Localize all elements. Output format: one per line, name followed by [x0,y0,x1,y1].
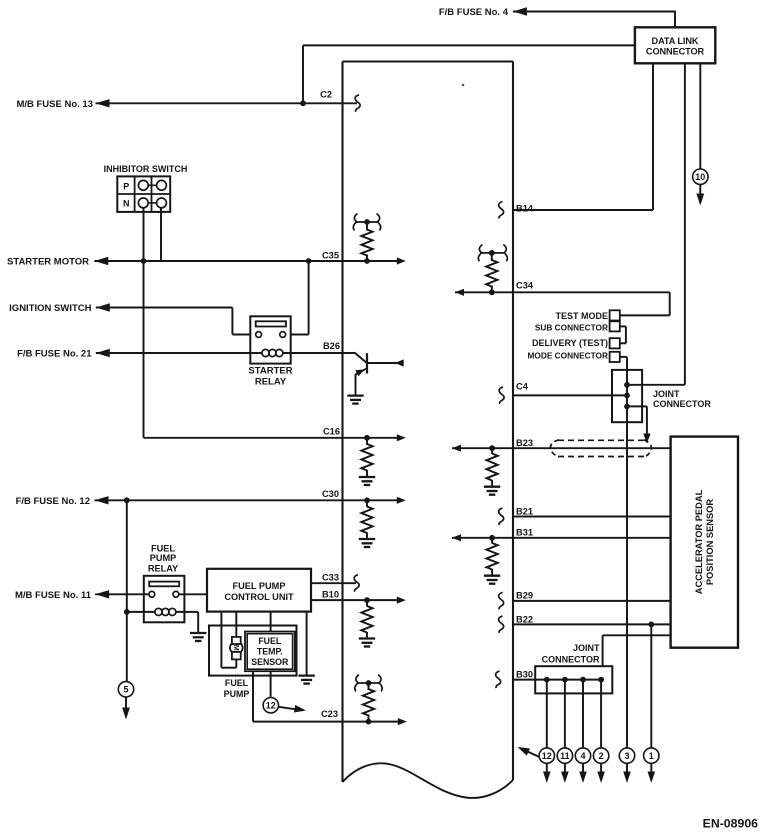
svg-text:M/B FUSE No. 13: M/B FUSE No. 13 [16,99,93,110]
node B23 resistor junction [489,445,495,451]
C35 resistor top-left squiggle [353,214,357,231]
node junction C2 branch [300,100,306,106]
svg-text:F/B FUSE No. 21: F/B FUSE No. 21 [17,349,92,360]
wire C23 resistor lead [368,683,370,690]
node C30 resistor junction [364,497,370,503]
wire below circle 12 [546,763,548,772]
arrow to IGNITION SWITCH [96,303,110,311]
svg-text:CONNECTOR: CONNECTOR [542,654,600,664]
node J2 pin 2 [562,677,568,683]
svg-text:PUMP: PUMP [224,689,250,699]
arrow C35 internal [397,257,406,264]
ground for R-C30 [359,538,375,540]
node circled 12 (sensor ref) [263,698,278,713]
svg-text:P: P [123,181,129,191]
scan artifact dot [462,84,465,87]
wire test pin2 to delivery pin1 [620,325,626,327]
wire inhibitor left column down to C16 [143,208,145,438]
node J2 pin 4 [598,677,604,683]
connector B30 squiggle [496,671,501,688]
starter relay terminal right [280,332,286,338]
node circled 3 [619,748,634,763]
inhibitor switch cell dividers [134,176,136,212]
svg-text:N: N [123,199,130,209]
inhibitor switch S1 box [117,176,170,212]
svg-text:2: 2 [599,751,604,761]
arrow down from circle 10 [696,194,704,206]
C35 resistor top-right squiggle [377,214,381,231]
resistor R-C34 zigzag [486,260,497,287]
svg-text:4: 4 [580,751,585,761]
svg-text:B10: B10 [322,590,339,600]
transistor Q1 bar [366,353,368,373]
connector C4 squiggle [499,387,504,404]
arrow down from circle 3 [623,772,631,784]
test mode sub connector pin 2 [610,321,620,331]
motor M1 brush bottom [232,652,241,660]
svg-text:STARTER MOTOR: STARTER MOTOR [7,257,89,268]
wire J2 pin2 down [564,680,566,748]
joint connector J1 box [612,370,642,422]
fuel pump relay terminal right [173,591,179,597]
arrow C34 internal [455,289,464,296]
svg-text:CONTROL UNIT: CONTROL UNIT [224,592,294,602]
wire below circle 1 [650,763,652,772]
wire J2 pin4 down [600,680,602,748]
node J1 pin top [624,382,630,388]
motor M1 body [230,642,243,655]
ECM band top edge (wire) [343,60,514,62]
svg-text:FUEL PUMP: FUEL PUMP [233,581,286,591]
wire coil to ground run [176,611,198,613]
reference arrow into ECM band [528,752,539,757]
wire relay branch riser [308,261,310,335]
svg-text:B29: B29 [516,591,533,601]
wire drop to DLC top [674,11,676,28]
svg-text:DATA LINK: DATA LINK [652,36,699,46]
node circled 12 [539,748,554,763]
svg-text:FUEL: FUEL [225,678,249,688]
shield dashed bottom [558,456,648,458]
svg-text:FUEL: FUEL [258,636,282,646]
wire ignition switch to relay [96,307,233,309]
node C23 resistor junction [366,719,372,725]
resistor R-B23 zigzag [487,454,498,481]
svg-text:ACCELERATOR PEDAL: ACCELERATOR PEDAL [694,489,704,594]
wire top feed to DATA LINK CONNECTOR [303,44,635,46]
arrow C30 internal [397,497,406,504]
connector B21 squiggle [499,508,504,525]
node J1 pin middle [624,393,630,399]
wire DLC pin1 drop to B14 [652,63,654,210]
arrow B10 internal [397,597,406,604]
delivery mode connector pin 2 [610,352,620,362]
svg-text:TEMP.: TEMP. [257,647,283,657]
wire M/B FUSE No.13 to connector C2 [96,102,358,104]
svg-text:CONNECTOR: CONNECTOR [653,399,711,409]
connector C2 squiggle [355,95,360,112]
node circled 10 [693,169,708,184]
wire relay coil lead left [250,352,262,354]
wire B10 resistor bottom lead [366,600,368,606]
wire fuse12 riser down [126,500,128,682]
svg-text:B22: B22 [516,614,533,624]
arrow to F/B FUSE No. 4 [513,7,527,15]
arrow C23 internal [398,718,407,725]
shield dashed top [558,439,645,441]
svg-text:MODE CONNECTOR: MODE CONNECTOR [527,351,608,361]
starter relay coil [262,349,269,356]
svg-text:M: M [232,645,241,651]
transistor Q1 collector arrowhead [395,359,404,366]
connector B14 squiggle [499,202,504,219]
resistor R-C35 zigzag [361,230,372,256]
svg-text:JOINT: JOINT [573,643,600,653]
delivery mode connector pin 1 [610,338,620,348]
wire starter motor to C35 [94,260,342,262]
wire C35 internal [343,260,402,262]
node circled 2 [593,748,608,763]
arrow to F/B FUSE No. 21 [96,349,110,357]
motor M1 brush top [232,637,241,644]
svg-text:FUEL: FUEL [151,544,175,554]
svg-text:C33: C33 [322,572,339,582]
arrow down from circle 11 [561,772,569,784]
ECM band left edge (wire) [341,62,343,783]
svg-text:DELIVERY (TEST): DELIVERY (TEST) [532,338,608,348]
wire joint connector bus [626,370,628,422]
wire C30 resistor bottom lead [366,500,368,507]
wire below circle 4 [582,763,584,772]
wire below circle 5 [125,697,127,709]
arrow to STARTER MOTOR [94,257,108,265]
node C34 resistor junction [489,289,495,295]
svg-text:C4: C4 [516,382,529,392]
node coil branch junction [124,609,130,615]
ground for R-B10 [359,637,375,639]
resistor R-B31 zigzag [487,543,498,570]
starter relay K1 box [250,316,290,363]
wire J1 bottom pin to shield drain [627,405,647,407]
wire control unit ground lead [306,612,308,675]
wire J2 pin3 down [582,680,584,748]
svg-text:INHIBITOR SWITCH: INHIBITOR SWITCH [104,164,188,174]
wire below circle 11 [564,763,566,772]
svg-text:C23: C23 [321,709,338,719]
svg-text:F/B FUSE No. 4: F/B FUSE No. 4 [439,7,509,18]
ECM band right edge (wire) [512,62,514,781]
svg-text:B26: B26 [323,341,340,351]
svg-text:C16: C16 [323,426,340,436]
node circled 4 [575,748,590,763]
wire relay right terminal to control unit [179,593,207,595]
wire motor bottom lead [235,659,237,667]
wire B23 resistor bottom lead [491,448,493,454]
wire F/B FUSE No.12 to C30 [95,499,343,501]
starter relay terminal left [256,332,262,338]
shield dashed left arc [550,440,559,457]
arrow down from circle 1 [648,772,656,784]
wire test pin1 to C34 riser [620,314,670,316]
ground for Q1 emitter [347,394,363,396]
svg-text:B21: B21 [516,506,533,516]
fuel pump relay contact bar [149,582,179,587]
wire F/B FUSE No.4 feed [513,11,675,13]
svg-text:C2: C2 [320,90,332,100]
fuel pump control unit U2 box [207,569,311,612]
fuel temp sensor outer box [245,632,295,672]
svg-text:11: 11 [560,751,570,761]
wire APPS to joint connector J2 [603,634,671,636]
C23 resistor top-left squiggle [355,675,359,692]
node C23 resistor top [366,680,372,686]
ECM band torn bottom edge [343,763,514,798]
arrow to M/B FUSE No. 11 [95,590,109,598]
wire DLC pin2 drop to joint connector [684,63,686,385]
svg-text:B30: B30 [516,670,533,680]
svg-text:STARTER: STARTER [248,366,292,377]
svg-text:5: 5 [123,685,128,695]
resistor R-C30 zigzag [361,507,372,534]
resistor R-B10 zigzag [361,606,372,633]
wire C16 resistor bottom lead [366,438,368,445]
svg-text:C30: C30 [322,489,339,499]
wire B21 run [513,516,671,518]
starter relay contact bar [256,321,286,326]
inhibitor contact P circles [138,180,148,190]
node B10 resistor junction [364,597,370,603]
wire C34 riser to test mode connector [669,292,671,315]
data link connector U-DLC box [635,27,715,63]
svg-text:12: 12 [542,751,552,761]
transistor Q1 emitter arrowhead [355,369,364,376]
C23 resistor top-right squiggle [378,675,382,692]
reference arrow from circle 12 [278,707,296,710]
C34 resistor top-left squiggle [478,245,482,262]
svg-text:C35: C35 [322,250,339,260]
wire sensor to circle 12 [270,671,272,698]
wire B30 run [513,679,602,681]
arrow to M/B FUSE No. 13 [96,99,110,107]
transistor Q1 emitter [356,369,367,374]
ground for R-B31 [484,575,500,577]
svg-text:IGNITION SWITCH: IGNITION SWITCH [9,303,91,314]
wire C30 internal [343,499,402,501]
ground for R-C16 [359,476,375,478]
wire B22 branch down to circle 1 [650,624,652,748]
wire B22 run [513,623,671,625]
test mode sub connector pin 1 [610,310,620,320]
svg-text:F/B FUSE No. 12: F/B FUSE No. 12 [16,496,90,507]
wire below circle 10 [699,185,701,194]
resistor R-C16 zigzag [361,444,372,471]
wire C16 to inhibitor riser [144,437,343,439]
node fuse12 branch junction [124,497,130,503]
node starter relay branch junction [306,258,312,264]
svg-text:C34: C34 [516,281,534,291]
wire J1 bus down to circle 3 [626,422,628,748]
arrow B31 internal [452,534,461,541]
svg-text:JOINT: JOINT [653,389,680,399]
svg-text:SENSOR: SENSOR [251,657,289,667]
wire C35 resistor lead [366,222,368,231]
ground for fuel pump relay coil [190,632,206,634]
wire C4 run [513,394,627,396]
connector B22 squiggle [499,616,504,633]
wire C34 run [455,291,670,293]
node circled 5 [118,682,133,697]
fuel pump relay terminal left [149,591,155,597]
wire B29 run [513,600,671,602]
wire B10 from control unit [311,599,401,601]
connector B29 squiggle [499,592,504,609]
svg-text:POSITION SENSOR: POSITION SENSOR [705,499,715,586]
node J2 pin 1 [544,677,550,683]
wire delivery pin2 to joint connector [620,356,627,358]
svg-text:1: 1 [649,751,654,761]
arrow shield drain down [643,434,650,444]
wire B31 run [452,537,671,539]
joint connector J2 box [535,666,612,693]
wire relay to B26 [283,352,355,354]
wire below circle 2 [600,763,602,772]
resistor R-C23 zigzag [363,689,374,716]
svg-text:EN-08906: EN-08906 [703,816,759,830]
svg-text:PUMP: PUMP [150,553,177,563]
wire B31 resistor bottom lead [491,538,493,544]
node C16 resistor junction [364,435,370,441]
wire coil feed [127,611,155,613]
svg-text:B14: B14 [516,204,534,214]
svg-text:B23: B23 [516,438,533,448]
node C35 resistor top [364,219,370,225]
node C35 resistor junction [364,258,370,264]
wire C16 internal [343,437,402,439]
wire sensor to C23 [252,671,254,721]
wire junction up-riser [302,45,304,103]
arrow C16 internal [397,434,406,441]
node B22 branch junction [648,622,654,628]
wire DLC pin3 drop to circle 10 [699,63,701,169]
node J1 pin bottom [624,404,630,410]
svg-text:RELAY: RELAY [148,563,178,573]
node J2 pin 3 [580,677,586,683]
connector C33 squiggle [354,575,359,592]
node C34 resistor top [489,250,495,256]
fuel pump relay K2 box [144,576,185,623]
shield dashed right arc [644,440,651,457]
node circled 1 [644,748,659,763]
fuel pump relay coil [155,608,162,615]
wire inhibitor right column [160,208,162,261]
wire C33 from control unit [311,582,356,584]
arrow down from circle 12 [543,772,551,784]
wire F/B FUSE No.21 through relay [96,352,251,354]
wire control unit to motor feed [235,612,237,637]
wire B23 run [452,447,671,449]
wire C23 run [253,721,343,723]
node inhibitor/starter-motor junction [141,258,147,264]
svg-text:M/B FUSE No. 11: M/B FUSE No. 11 [15,590,92,601]
arrow down from circle 2 [597,772,605,784]
fuel pump assembly box [209,626,297,676]
arrow down from circle 5 [122,708,130,720]
wire control unit to motor return [220,612,222,668]
wire C23 internal [343,721,403,723]
C34 resistor top-right squiggle [503,245,507,262]
wire control unit to temp sensor [270,612,272,632]
transistor Q1 base lead [354,352,366,362]
transistor Q1 collector [367,362,404,364]
ground for control unit [298,674,314,676]
svg-text:10: 10 [695,172,705,182]
svg-text:RELAY: RELAY [255,377,287,388]
svg-text:3: 3 [624,751,629,761]
accelerator pedal position sensor box [671,437,738,648]
arrow down from circle 4 [579,772,587,784]
wire J2 pin1 down [546,680,548,748]
svg-text:TEST MODE: TEST MODE [555,311,608,321]
wire below circle 3 [626,763,628,772]
arrow to F/B FUSE No. 12 [95,496,109,504]
fuel temp sensor inner box [247,634,292,670]
svg-text:12: 12 [266,701,276,711]
svg-text:B31: B31 [516,528,533,538]
arrow B23 internal [452,445,461,452]
wire M/B FUSE No.11 to relay [95,593,149,595]
inhibitor contact N circles [138,198,148,208]
wire C34 resistor lead [491,253,493,261]
node B31 resistor junction [489,535,495,541]
node circled 11 [557,748,572,763]
ground for R-B23 [484,486,500,488]
svg-text:CONNECTOR: CONNECTOR [646,47,705,57]
svg-text:SUB CONNECTOR: SUB CONNECTOR [535,323,608,333]
